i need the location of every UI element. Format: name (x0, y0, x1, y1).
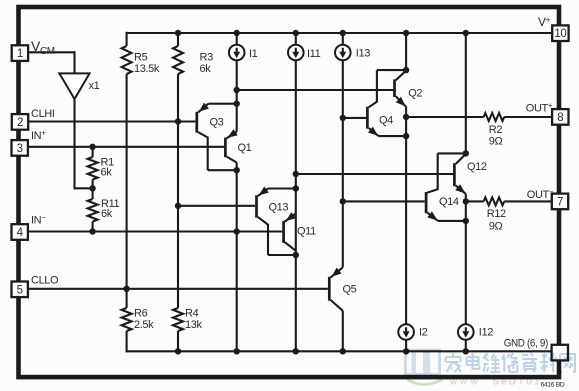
svg-text:7: 7 (557, 196, 563, 208)
svg-text:R2: R2 (489, 124, 503, 136)
svg-text:4: 4 (17, 227, 24, 239)
svg-text:GND (6, 9): GND (6, 9) (504, 337, 548, 349)
svg-text:Q11: Q11 (297, 226, 316, 238)
svg-text:I1: I1 (249, 48, 258, 60)
svg-text:1: 1 (17, 48, 23, 60)
svg-text:6k: 6k (101, 167, 113, 179)
svg-text:I11: I11 (307, 48, 321, 60)
svg-text:2: 2 (17, 117, 23, 129)
svg-text:www.: www. (449, 377, 486, 388)
svg-text:13k: 13k (185, 319, 202, 331)
svg-text:6416 BD: 6416 BD (541, 382, 565, 389)
svg-text:CLHI: CLHI (31, 108, 55, 120)
svg-text:6k: 6k (200, 63, 212, 75)
svg-text:SeDT01: SeDT01 (493, 377, 542, 388)
svg-text:R6: R6 (134, 308, 148, 320)
svg-text:R4: R4 (185, 308, 199, 320)
svg-text:Q14: Q14 (439, 196, 459, 208)
svg-text:Q13: Q13 (269, 202, 289, 214)
svg-text:I12: I12 (479, 327, 493, 339)
svg-text:I2: I2 (419, 327, 428, 339)
svg-text:8: 8 (557, 112, 563, 124)
svg-text:9Ω: 9Ω (489, 136, 503, 148)
svg-text:3: 3 (17, 143, 23, 155)
svg-text:9Ω: 9Ω (489, 221, 503, 233)
svg-text:CLLO: CLLO (31, 274, 59, 286)
svg-text:x1: x1 (89, 80, 100, 92)
svg-text:6k: 6k (101, 208, 113, 220)
svg-text:Q5: Q5 (343, 283, 357, 295)
svg-text:Q3: Q3 (210, 117, 224, 129)
svg-text:10: 10 (554, 28, 566, 40)
svg-text:Q4: Q4 (379, 115, 393, 127)
svg-text:5: 5 (17, 284, 23, 296)
svg-text:2.5k: 2.5k (134, 319, 154, 331)
svg-text:R5: R5 (134, 52, 148, 64)
svg-text:I13: I13 (356, 48, 370, 60)
svg-text:Q12: Q12 (467, 161, 487, 173)
svg-text:R3: R3 (200, 52, 214, 64)
svg-text:13.5k: 13.5k (134, 63, 160, 75)
svg-text:R12: R12 (487, 208, 506, 220)
svg-text:Q1: Q1 (238, 142, 252, 154)
svg-text:Q2: Q2 (408, 88, 422, 100)
